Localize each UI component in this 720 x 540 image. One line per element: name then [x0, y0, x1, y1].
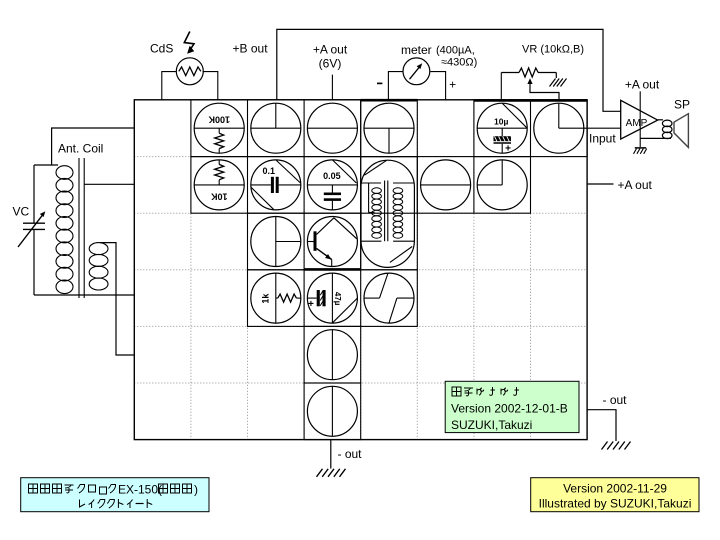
wire secondary top to grid	[100, 243, 134, 355]
meter M symbol	[403, 58, 430, 85]
label Input	[589, 132, 616, 146]
block wire junction inverted-T (col5,row1)	[364, 103, 414, 153]
label meter minus	[377, 82, 382, 84]
svg-text:10µ: 10µ	[494, 117, 508, 127]
svg-text:Input: Input	[589, 132, 616, 146]
svg-text:+B out: +B out	[233, 42, 269, 56]
wire antenna coil top to grid	[52, 128, 135, 165]
label gakken denshi block EX-150 (japanese)	[29, 483, 199, 497]
wire - out bottom	[330, 440, 332, 469]
svg-text:+A out: +A out	[625, 78, 660, 92]
label VC	[13, 205, 30, 219]
label +A out right	[618, 178, 653, 192]
label Ant. Coil	[58, 142, 103, 156]
wire +A out to grid	[331, 75, 333, 100]
svg-text:SUZUKI,Takuzi: SUZUKI,Takuzi	[451, 418, 532, 432]
label - out bottom	[338, 447, 363, 461]
thick bus segment top of col5	[361, 99, 418, 102]
VR wiper arrow and wire	[527, 78, 559, 99]
wire Input from grid to AMP	[584, 127, 621, 129]
label CdS	[150, 42, 173, 56]
ground at - out right	[602, 442, 631, 450]
svg-text:Ant. Coil: Ant. Coil	[58, 142, 103, 156]
block wire vertical (col4,row5)	[307, 330, 357, 380]
wire - out right	[587, 410, 616, 441]
wire VC top edge	[34, 164, 58, 166]
svg-text:SP: SP	[674, 98, 690, 112]
ground at AMP	[634, 148, 647, 154]
potentiometer VR symbol	[501, 68, 556, 77]
block cell borders row1 left group	[191, 100, 361, 157]
note box version (yellow)	[531, 478, 699, 512]
label denshi piyopiyo (japanese)	[452, 387, 519, 396]
note box circuit name (green)	[445, 381, 579, 432]
variable capacitor VC symbol	[18, 165, 45, 295]
block resistor 100K (col2,row1)	[194, 103, 244, 153]
block wire straight (col6,row2)	[421, 160, 471, 210]
svg-text:VC: VC	[13, 205, 30, 219]
ground at - out bottom	[317, 469, 346, 477]
block wire vertical (col4,row6)	[307, 386, 357, 436]
block cell border row5 col4	[304, 326, 361, 383]
svg-text:): )	[194, 483, 198, 497]
svg-text:EX-150(: EX-150(	[118, 483, 162, 497]
wire +A out into AMP and ground stem	[639, 91, 641, 147]
op-amp AMP U1	[621, 100, 658, 139]
svg-text:- out: - out	[603, 393, 628, 407]
CdS light arrow	[184, 32, 194, 54]
speaker SP coil and wires	[640, 120, 672, 139]
thick bus segment top of col7-col8	[474, 99, 587, 102]
svg-text:≈430Ω): ≈430Ω)	[441, 57, 477, 69]
label layout sheet (japanese)	[80, 499, 153, 508]
block transformer T (col5,row2-3)	[361, 160, 414, 267]
block transistor Q (col4,row3)	[307, 217, 357, 267]
svg-text:0.1: 0.1	[263, 166, 276, 176]
wire +A out tick right	[587, 183, 613, 185]
block capacitor C 10u electrolytic (col7,row1)	[477, 103, 527, 154]
svg-text:(400µA,: (400µA,	[436, 45, 475, 57]
label +B out	[233, 42, 269, 56]
block cell borders row2 group	[191, 157, 531, 214]
svg-text:Illustrated by SUZUKI,Takuzi: Illustrated by SUZUKI,Takuzi	[539, 497, 692, 511]
ground at VR	[550, 73, 567, 87]
svg-text:CdS: CdS	[150, 42, 173, 56]
svg-text:+A out: +A out	[618, 178, 653, 192]
block cell borders row1 col5	[361, 100, 418, 157]
speaker SP body	[674, 114, 688, 148]
svg-text:Version 2002-12-01-B: Version 2002-12-01-B	[451, 402, 568, 416]
block cell borders row4 group	[248, 270, 418, 327]
block capacitor 47u electrolytic (col4,row4)	[307, 273, 357, 323]
wire CdS left to grid	[162, 72, 177, 100]
label VR (10k,B)	[522, 44, 584, 56]
svg-text:+: +	[308, 299, 314, 310]
wire +B out to AMP	[277, 29, 621, 111]
svg-text:10K: 10K	[210, 191, 227, 201]
antenna coil primary winding	[56, 166, 73, 294]
node panel outer frame	[134, 100, 587, 440]
block cell borders row1 right group	[474, 100, 587, 157]
label - out right	[603, 393, 628, 407]
block wire junction vertical-right (col3,row3)	[251, 217, 301, 267]
label SP	[674, 98, 690, 112]
wire coil tap to grid	[84, 183, 134, 185]
svg-text:- out: - out	[338, 447, 363, 461]
CdS photocell symbol	[176, 58, 203, 85]
svg-text:+: +	[505, 144, 511, 155]
block resistor 10K (col2,row2)	[194, 160, 244, 210]
wire grid dotted guide lines	[134, 100, 587, 440]
svg-text:Version 2002-11-29: Version 2002-11-29	[563, 482, 667, 496]
antenna coil core	[79, 158, 84, 298]
block resistor 1k (col3,row4)	[251, 273, 301, 323]
block wire straight (col4,row1)	[307, 103, 357, 153]
label meter plus	[449, 78, 456, 92]
block wire corner top-right (col8,row1)	[534, 103, 584, 153]
block capacitor 0.05 (col4,row2)	[307, 160, 357, 210]
svg-text:(6V): (6V)	[319, 57, 342, 71]
block wire junction T (col3,row1)	[251, 103, 301, 153]
svg-text:100K: 100K	[208, 115, 230, 125]
block cell border transformer cell	[361, 157, 418, 270]
label meter (400uA, 430ohm)	[401, 43, 477, 69]
svg-text:VR (10kΩ,B): VR (10kΩ,B)	[522, 44, 584, 56]
svg-text:+: +	[449, 78, 456, 92]
svg-text:+A out: +A out	[313, 43, 348, 57]
wire VR left to grid	[500, 73, 502, 100]
svg-text:0.05: 0.05	[323, 171, 341, 181]
thick bus segment bottom of transistor cell	[304, 268, 361, 271]
block capacitor 0.1 (col3,row2)	[251, 160, 301, 210]
antenna coil secondary winding	[89, 243, 108, 290]
wire CdS right to grid	[203, 72, 218, 100]
block key switch S (col5,row4)	[364, 273, 414, 323]
block cell borders row3 group	[248, 213, 361, 270]
svg-text:meter: meter	[401, 43, 432, 57]
svg-text:AMP: AMP	[626, 118, 648, 129]
wire bottom edge to grid	[34, 294, 134, 296]
label +A out above AMP	[625, 78, 660, 92]
wire meter plus to grid	[430, 72, 445, 100]
note box title (cyan)	[21, 478, 209, 512]
svg-text:47µ: 47µ	[333, 292, 342, 306]
svg-text:1k: 1k	[260, 293, 270, 304]
block wire corner top-left (col7,row2)	[477, 160, 527, 210]
wire meter minus to grid	[388, 72, 402, 100]
block cell border row6 col4	[304, 383, 361, 440]
label +A out (6V)	[313, 43, 348, 71]
